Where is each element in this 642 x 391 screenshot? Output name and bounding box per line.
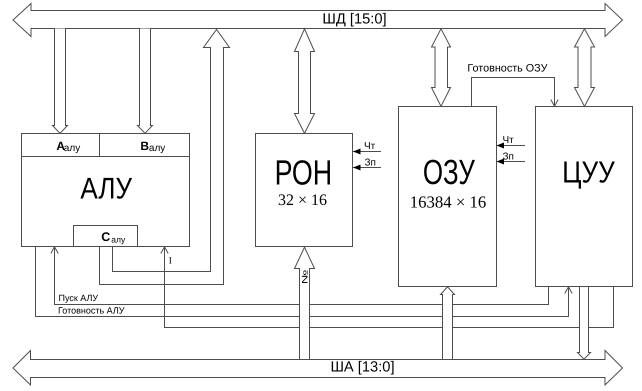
svg-text:Готовность АЛУ: Готовность АЛУ (58, 306, 125, 316)
svg-text:I: I (169, 256, 172, 266)
svg-text:Чт: Чт (503, 135, 515, 146)
bus ШД [15:0] (top horizontal double arrow) (13, 4, 623, 37)
double arrow РОН to ШД (bidirectional) (295, 29, 315, 134)
wire Чт into ОЗУ (497, 143, 526, 149)
svg-text:ША [13:0]: ША [13:0] (330, 360, 394, 376)
divider between A and B cells (99, 134, 101, 157)
block ОЗУ (399, 107, 497, 287)
bus arrow ША to ОЗУ (vertical) (441, 287, 455, 360)
double arrow ОЗУ to ШД (bidirectional) (432, 29, 451, 107)
svg-text:алу: алу (64, 143, 80, 154)
bus arrow ЦУУ to ША (vertical, down) (578, 287, 591, 360)
svg-text:Зп: Зп (365, 158, 376, 169)
wire Зп into РОН (353, 165, 381, 171)
svg-text:Пуск АЛУ: Пуск АЛУ (59, 293, 99, 303)
label A_алу (56, 139, 80, 154)
wire Готовность АЛУ (АЛУ bottom to ЦУУ bottom) (36, 247, 573, 317)
svg-text:алу: алу (149, 143, 165, 154)
svg-text:ШД [15:0]: ШД [15:0] (322, 12, 386, 28)
svg-text:C: C (101, 230, 110, 244)
svg-text:ОЗУ: ОЗУ (423, 153, 476, 192)
wide bus arrow C_алу to ШД (hollow path) (100, 30, 230, 285)
register A_алу cell (22, 156, 190, 158)
register C_алу box (74, 226, 138, 247)
wire Зп into ОЗУ (497, 159, 526, 165)
svg-text:№: № (301, 269, 310, 284)
svg-text:Готовность ОЗУ: Готовность ОЗУ (467, 63, 547, 75)
svg-text:РОН: РОН (275, 153, 333, 192)
svg-text:16384 × 16: 16384 × 16 (410, 192, 487, 211)
arrow ШД to A_алу (hollow, down) (53, 29, 68, 134)
bus arrow РОН to ША (vertical, № input) (295, 247, 315, 359)
wire Пуск АЛУ (ЦУУ bottom to АЛУ bottom) (51, 247, 549, 305)
wire I (ЦУУ bottom to АЛУ bottom) (161, 247, 614, 328)
block АЛУ (22, 134, 190, 247)
svg-text:Зп: Зп (503, 152, 514, 163)
svg-text:Чт: Чт (364, 141, 376, 152)
double arrow ЦУУ to ШД (bidirectional) (575, 29, 595, 107)
block РОН (256, 134, 353, 247)
svg-text:ЦУУ: ЦУУ (562, 156, 615, 190)
svg-text:алу: алу (111, 234, 126, 244)
block ЦУУ (536, 107, 633, 287)
bus ША [13:0] (bottom horizontal double arrow) (13, 351, 623, 386)
arrow ШД to B_алу (hollow, down) (138, 29, 153, 134)
svg-text:32 × 16: 32 × 16 (278, 192, 327, 209)
svg-text:АЛУ: АЛУ (80, 172, 132, 205)
label C_алу (101, 230, 126, 244)
wire Готовность ОЗУ (ОЗУ top to ЦУУ top) (472, 78, 559, 107)
wire Чт into РОН (353, 149, 381, 155)
label B_алу (140, 139, 165, 154)
